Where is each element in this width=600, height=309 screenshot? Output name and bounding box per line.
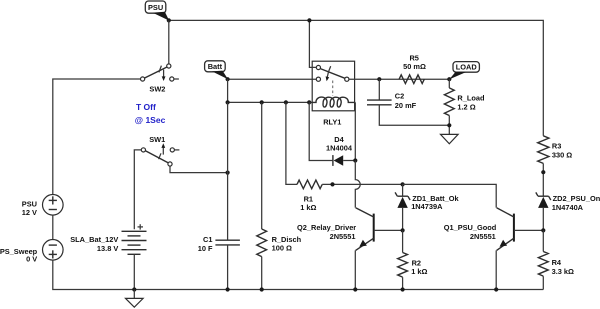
- node battery rail dot: [132, 287, 136, 291]
- node SW1/C1 junction dot: [226, 171, 230, 175]
- svg-text:100 Ω: 100 Ω: [272, 243, 292, 252]
- svg-text:3.3 kΩ: 3.3 kΩ: [552, 267, 574, 276]
- svg-text:SLA_Bat_12V: SLA_Bat_12V: [70, 235, 118, 244]
- svg-text:SW2: SW2: [149, 85, 165, 94]
- wire battery - down to rail: [133, 254, 135, 289]
- resistor R2 1k: [398, 253, 428, 278]
- wire R1 feed from bus down then right: [286, 102, 297, 184]
- svg-text:T Off: T Off: [136, 102, 156, 112]
- node ZD2 anode / Q1 base dot: [541, 228, 545, 232]
- wire ZD2 node down to R4: [542, 230, 544, 251]
- wire Batt flag to relay pin (left-mid): [228, 78, 317, 80]
- svg-text:20 mF: 20 mF: [395, 101, 417, 110]
- svg-text:SW1: SW1: [149, 135, 165, 144]
- voltage source PSU 12V: [22, 195, 63, 218]
- wire C2 bottom to load ground node: [379, 105, 449, 126]
- node C1 rail dot: [226, 287, 230, 291]
- wire Q2 emitter to rail: [354, 250, 356, 289]
- node R_Disch rail dot: [260, 287, 264, 291]
- node Q2 emitter rail dot: [353, 287, 357, 291]
- svg-text:1.2 Ω: 1.2 Ω: [457, 103, 475, 112]
- wire vertical with hop over R1 wire (Q2 collector column): [355, 161, 360, 208]
- label T Off @ 1Sec: [135, 102, 166, 125]
- wire R_Disch bottom to rail: [261, 257, 263, 290]
- node Batt flag junction dot: [226, 77, 230, 81]
- resistor R_Load 1.2 ohm: [444, 79, 485, 115]
- resistor R_Disch 100 ohm: [257, 229, 302, 257]
- relay RLY1 box: [312, 61, 354, 111]
- switch SW2: [141, 64, 179, 94]
- zener diode ZD1 1N4739A: [395, 184, 459, 230]
- svg-text:1N4004: 1N4004: [326, 144, 353, 153]
- node LOAD junction dot: [447, 77, 451, 81]
- svg-text:R3: R3: [552, 142, 561, 151]
- node bus dot relay coil left: [307, 100, 311, 104]
- svg-text:2N5551: 2N5551: [330, 232, 356, 241]
- wire coil right down to D4 node: [354, 102, 356, 160]
- resistor R1 1k: [297, 180, 322, 212]
- svg-text:50 mΩ: 50 mΩ: [403, 62, 426, 71]
- node C2 tap dot: [377, 77, 381, 81]
- wire C1 column from SW1 junction down to C1: [227, 102, 229, 240]
- svg-text:LOAD: LOAD: [456, 63, 478, 72]
- wire PSU junction down to SW2 top contact: [168, 20, 170, 64]
- wire R_Disch top lead from bus: [261, 102, 263, 229]
- wire Batt bus horizontal: [228, 101, 310, 103]
- svg-text:Q2_Relay_Driver: Q2_Relay_Driver: [297, 223, 356, 232]
- resistor R4 3.3k: [538, 252, 574, 277]
- wire SW1 output down then right to C1 column: [170, 166, 228, 173]
- capacitor C1: [198, 235, 240, 253]
- wire SW1 common left and down to battery +: [134, 150, 141, 229]
- svg-text:D4: D4: [334, 135, 344, 144]
- resistor R5 50 mohm: [399, 53, 426, 83]
- node bus dot R_Disch column: [260, 100, 264, 104]
- relay RLY1 contact pins: [316, 65, 349, 81]
- node PSU flag junction dot: [167, 18, 171, 22]
- svg-text:1N4740A: 1N4740A: [552, 203, 584, 212]
- wire Q1 emitter to rail: [495, 250, 497, 289]
- svg-text:1 kΩ: 1 kΩ: [411, 267, 427, 276]
- svg-text:1N4739A: 1N4739A: [411, 202, 443, 211]
- svg-text:R2: R2: [412, 258, 421, 267]
- relay RLY1 actuator dashed link: [332, 81, 334, 97]
- svg-text:R4: R4: [552, 258, 562, 267]
- wire R_Load bottom to ground node: [448, 116, 450, 135]
- wire R4 bottom to rail corner: [542, 276, 544, 289]
- inductor relay coil: [309, 97, 355, 107]
- wire R2 bottom to rail: [402, 277, 404, 289]
- flag Batt: [205, 61, 228, 79]
- svg-text:R_Load: R_Load: [457, 94, 485, 103]
- wire ZD1 node down to R2: [402, 230, 404, 252]
- node load ground dot: [447, 123, 451, 127]
- svg-text:@ 1Sec: @ 1Sec: [135, 115, 166, 125]
- svg-text:330 Ω: 330 Ω: [552, 151, 572, 160]
- wire between PSU and PS_Sweep sources: [52, 215, 54, 239]
- relay RLY1 blade: [320, 69, 345, 79]
- svg-text:Q1_PSU_Good: Q1_PSU_Good: [444, 223, 497, 232]
- svg-text:12 V: 12 V: [22, 208, 37, 217]
- wire Batt junction down to bus: [227, 79, 229, 102]
- node R1 wire dot: [330, 182, 334, 186]
- node D4 anode dot: [353, 158, 357, 162]
- flag LOAD: [449, 62, 479, 80]
- svg-text:C2: C2: [395, 92, 404, 101]
- svg-text:Batt: Batt: [208, 62, 223, 71]
- svg-text:C1: C1: [203, 235, 212, 244]
- zener diode ZD2 1N4740A: [536, 192, 600, 230]
- node top rail relay dot: [307, 18, 311, 22]
- wire relay top pin to top rail: [309, 20, 316, 67]
- capacitor C2: [367, 79, 417, 110]
- battery SLA_Bat_12V: [70, 224, 146, 254]
- node ZD1 anode / Q2 base dot: [401, 228, 405, 232]
- svg-text:10 F: 10 F: [198, 244, 213, 253]
- wire R1 right to hop and ZD1 node: [322, 183, 402, 185]
- wire R3 bottom to ZD2: [542, 163, 544, 196]
- wire ZD1 node to Q1 collector corner: [403, 184, 497, 207]
- wire SW2 common to left then down to PSU source: [53, 79, 141, 195]
- relay RLY1 actuation arrow: [326, 66, 331, 81]
- svg-text:13.8 V: 13.8 V: [97, 244, 118, 253]
- wire top rail from PSU flag junction to right corner: [169, 20, 544, 135]
- node bus dot R1 column: [284, 100, 288, 104]
- wire relay right pin to LOAD node: [349, 78, 449, 80]
- wire C1 bottom to rail: [227, 245, 229, 290]
- switch SW1: [141, 135, 179, 166]
- svg-text:2N5551: 2N5551: [470, 232, 496, 241]
- transistor Q2 2N5551: [297, 208, 403, 251]
- node bus dot C1 column: [226, 100, 230, 104]
- transistor Q1 2N5551: [444, 208, 544, 251]
- voltage source PS_Sweep 0V: [0, 240, 63, 264]
- node ZD1 top dot: [401, 182, 405, 186]
- resistor R3 330 ohm: [538, 136, 573, 164]
- node R2 rail dot: [401, 287, 405, 291]
- svg-text:RLY1: RLY1: [323, 118, 341, 127]
- ground below battery: [126, 290, 144, 308]
- svg-text:PSU: PSU: [148, 3, 163, 12]
- flag PSU: [145, 1, 169, 21]
- svg-text:1 kΩ: 1 kΩ: [300, 203, 316, 212]
- wire PS_Sweep down to bottom rail: [53, 260, 544, 289]
- svg-text:0 V: 0 V: [26, 255, 37, 264]
- node Q1 emitter rail dot: [494, 287, 498, 291]
- node R3/ZD2 dot: [541, 170, 545, 174]
- ground load: [441, 134, 459, 143]
- diode D4 1N4004: [309, 102, 355, 165]
- label RLY1: [323, 118, 341, 127]
